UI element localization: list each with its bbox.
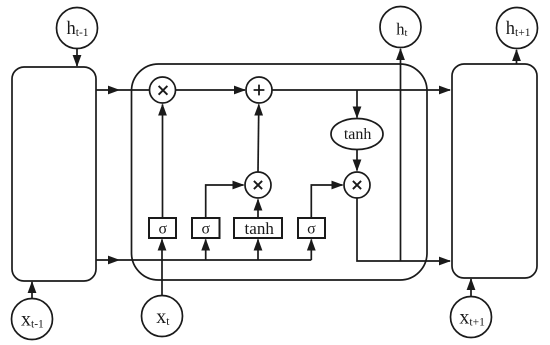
sigma box S3 (output gate) [298, 218, 325, 238]
wire tanh ellipse to multiply gate M3 (arrow) [356, 150, 358, 171]
wire h_t-1 into left block (arrow down) [76, 49, 78, 67]
svg-text:tanh: tanh [344, 126, 372, 143]
node x_t-1 (circle) [12, 299, 53, 340]
svg-text:ht: ht [396, 19, 407, 39]
node h_t-1 (circle) [57, 8, 98, 49]
add gate (plus circle) [246, 77, 272, 103]
svg-text:σ: σ [201, 221, 210, 238]
node x_t (circle) [142, 296, 183, 337]
wire cell-state line: left block to multiply gate M1 (arrow mid) [96, 89, 119, 91]
wire gate line branch up into sigma S3 (arrow) [310, 240, 312, 261]
svg-text:xt: xt [156, 306, 170, 328]
wire gate line branch up into tanh box (arrow) [257, 240, 259, 261]
wire cell-state line: add gate to next block (arrow into right block) [272, 89, 450, 91]
wire x_t+1 into right block (arrow up) [470, 279, 472, 297]
wire branch up to h_t from output line (arrow into h_t) [400, 49, 402, 261]
node h_t+1 (circle) [497, 8, 538, 49]
svg-text:tanh: tanh [245, 219, 275, 238]
svg-text:σ: σ [158, 221, 167, 238]
LSTM cell boundary (center rounded rectangle) [132, 64, 428, 280]
wire gate-input line across cell to sigma S3 branch [119, 259, 311, 261]
wire M1 to add gate (arrow) [176, 89, 246, 91]
node h_t (circle) [380, 7, 421, 48]
next time-step block (right rounded rectangle) [452, 64, 537, 278]
wire cell-state line continue to M1 [119, 89, 150, 91]
svg-text:σ: σ [307, 221, 316, 238]
tanh ellipse (cell-state activation) [331, 119, 383, 150]
previous time-step block (left rounded rectangle) [12, 67, 96, 281]
tanh box (candidate activation) [234, 218, 282, 238]
wire M3 output down then right into next block (arrow) [357, 198, 450, 261]
wire x_t up into sigma S1 (arrow crossing gate line) [161, 240, 163, 296]
multiply gate M1 (forget product) [150, 77, 176, 103]
svg-text:ht-1: ht-1 [67, 19, 89, 39]
multiply gate M2 (input product) [245, 172, 271, 198]
sigma box S2 (input gate) [192, 218, 220, 238]
wire M2 up into add gate (arrow) [257, 105, 260, 173]
wire right block up into h_t+1 (arrow) [516, 50, 518, 64]
wire tanh box up into M2 (arrow) [257, 200, 259, 219]
wire S3 up then right into M3 (arrow) [311, 185, 342, 218]
sigma box S1 (forget gate) [149, 218, 176, 238]
node x_t+1 (circle) [451, 297, 492, 338]
multiply gate M3 (output product) [344, 172, 370, 198]
wire gate line branch up into sigma S2 (arrow) [205, 240, 207, 261]
wire branch down from cell-state line into tanh ellipse (arrow) [356, 90, 358, 118]
svg-text:ht+1: ht+1 [506, 19, 531, 39]
wire x_t-1 into left block (arrow up) [31, 282, 33, 299]
wire S1 up into M1 (arrow) [162, 105, 164, 219]
wire gate-input line: left block h output (arrow mid) [96, 259, 119, 261]
wire S2 up then right into M2 (arrow) [206, 185, 244, 218]
svg-text:xt-1: xt-1 [21, 308, 44, 330]
svg-text:xt+1: xt+1 [459, 306, 485, 328]
